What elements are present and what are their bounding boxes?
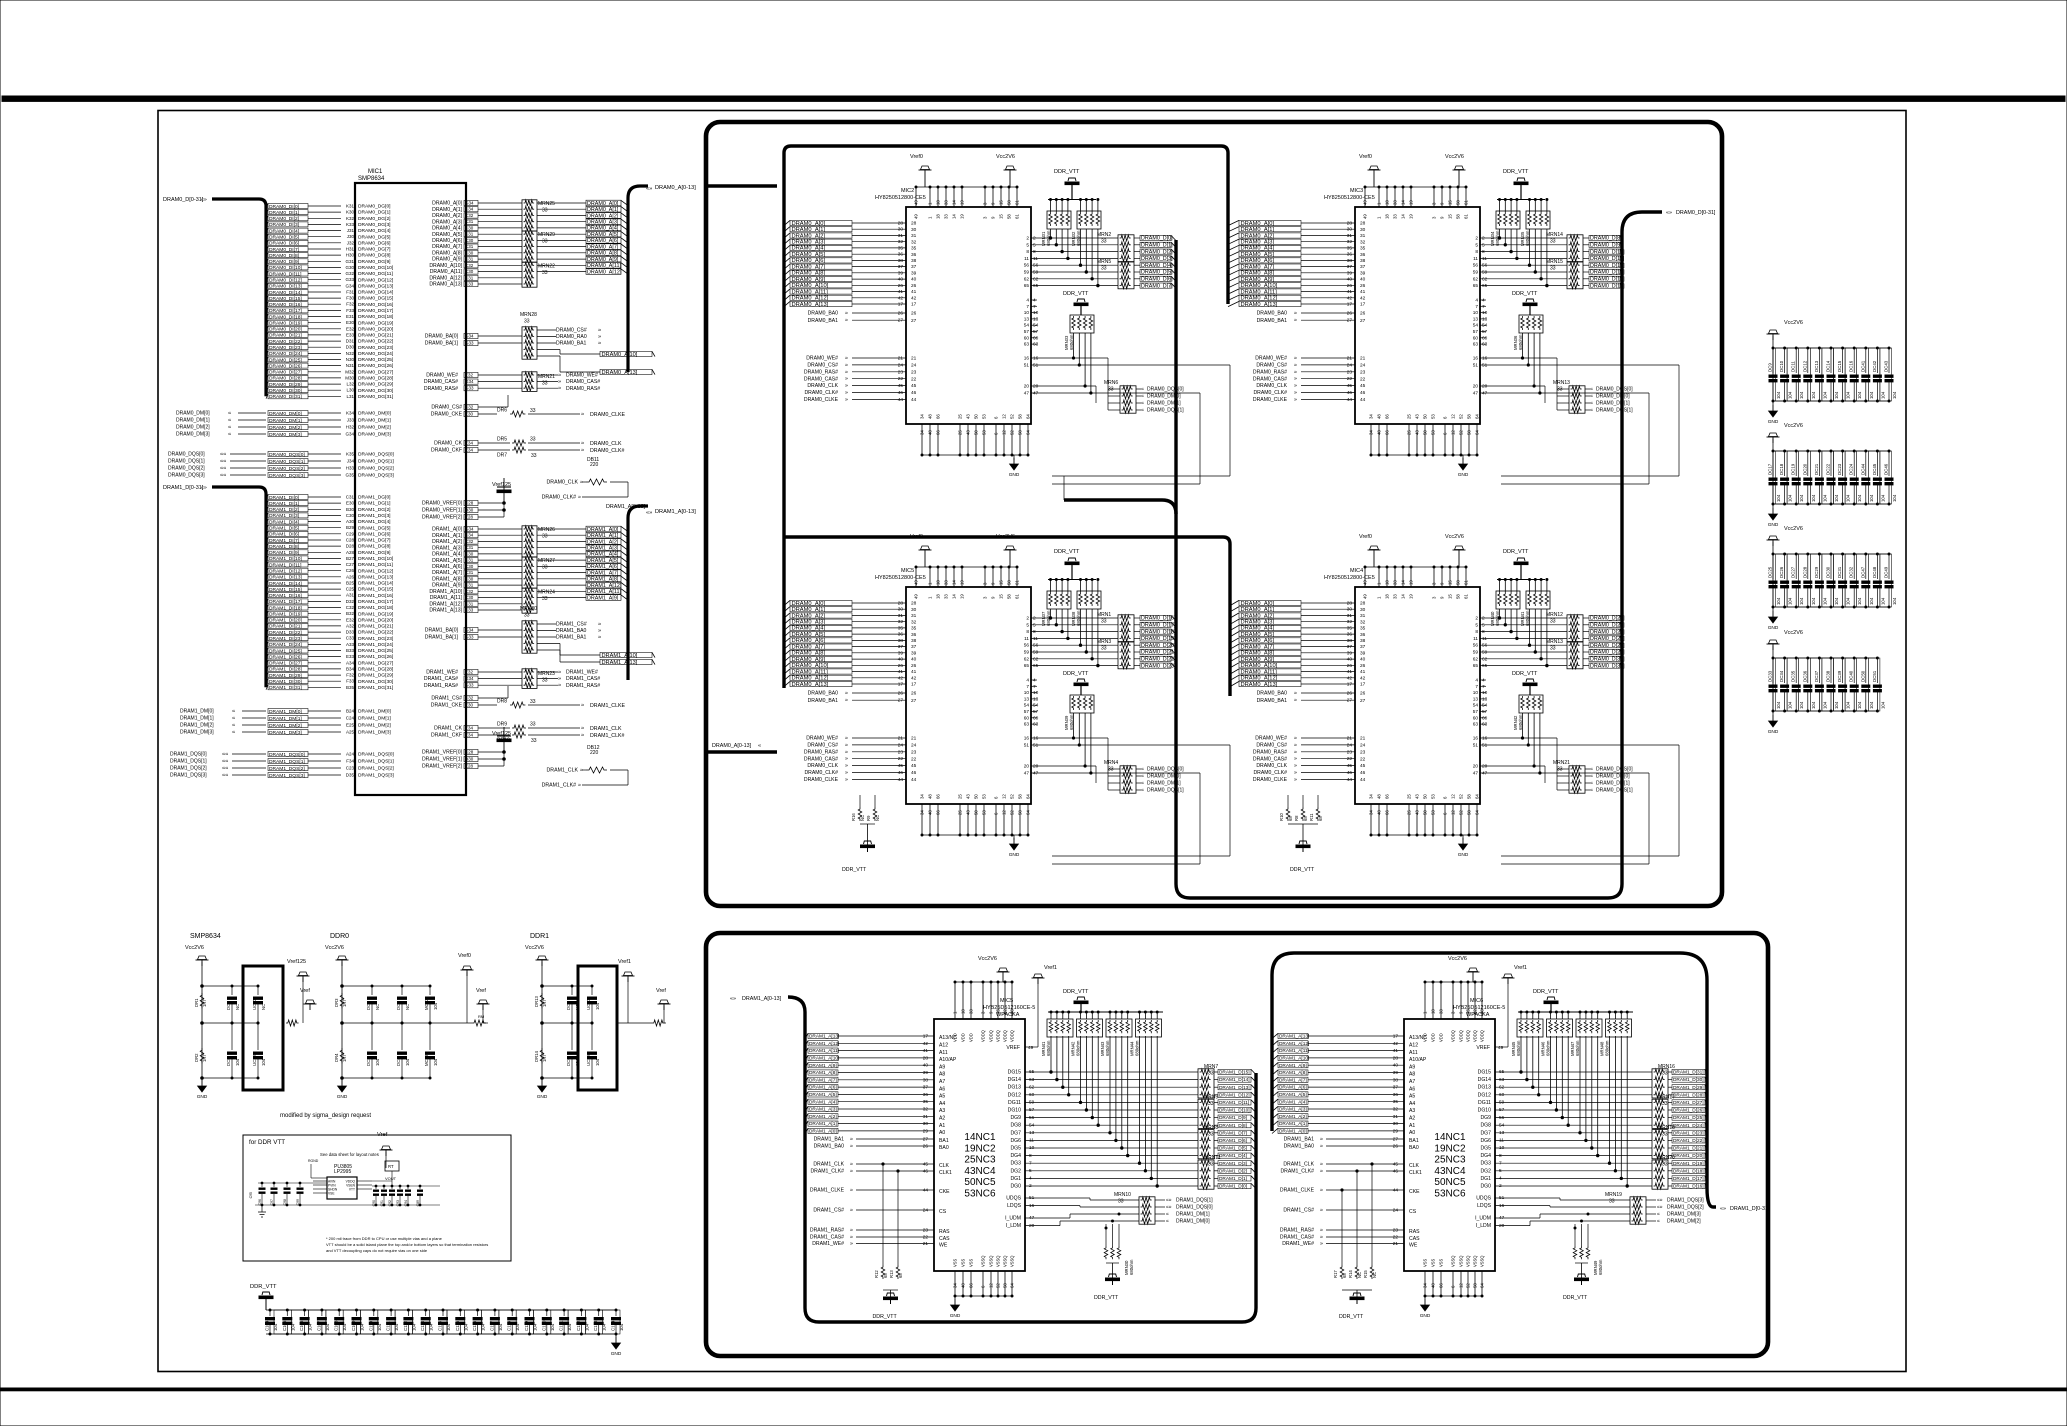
svg-text:DRAM0_D[30]: DRAM0_D[30] bbox=[1590, 657, 1625, 663]
svg-text:»: » bbox=[1320, 1241, 1323, 1247]
svg-text:GND: GND bbox=[1768, 522, 1779, 528]
svg-text:DRAM0_DM[0]: DRAM0_DM[0] bbox=[269, 411, 302, 417]
svg-text:DRAM1_VREF[1]: DRAM1_VREF[1] bbox=[422, 757, 463, 763]
svg-text:30: 30 bbox=[1393, 1121, 1399, 1127]
svg-text:25: 25 bbox=[958, 810, 963, 815]
svg-text:E30: E30 bbox=[346, 501, 355, 506]
svg-text:»: » bbox=[581, 703, 584, 709]
svg-text:17: 17 bbox=[923, 1034, 929, 1040]
svg-text:DRAM0_A[5]: DRAM0_A[5] bbox=[1241, 252, 1275, 258]
svg-text:for DDR VTT: for DDR VTT bbox=[249, 1139, 285, 1146]
svg-text:DRAM1_CLKE: DRAM1_CLKE bbox=[590, 703, 626, 709]
svg-text:C120: C120 bbox=[541, 1320, 546, 1331]
svg-text:DRAM0_DQS[0]: DRAM0_DQS[0] bbox=[358, 452, 394, 458]
svg-text:Vcc2V6: Vcc2V6 bbox=[1784, 526, 1803, 532]
svg-text:DRAM0_DM[1]: DRAM0_DM[1] bbox=[358, 418, 391, 424]
svg-text:CKE: CKE bbox=[1409, 1189, 1420, 1195]
svg-text:»: » bbox=[1320, 1235, 1323, 1241]
svg-text:47: 47 bbox=[1024, 391, 1030, 397]
svg-text:DRAM0_DQS[0]: DRAM0_DQS[0] bbox=[1596, 387, 1633, 393]
svg-text:43: 43 bbox=[966, 794, 971, 799]
svg-text:DRAM1_D[31]: DRAM1_D[31] bbox=[1673, 1070, 1704, 1076]
svg-text:42: 42 bbox=[898, 675, 904, 681]
svg-text:K35: K35 bbox=[346, 452, 355, 457]
svg-text:17: 17 bbox=[911, 682, 917, 688]
svg-text:37: 37 bbox=[911, 644, 917, 650]
svg-text:DRAM1_BA0: DRAM1_BA0 bbox=[814, 1144, 845, 1150]
svg-text:DRAM0_D[0-31]: DRAM0_D[0-31] bbox=[163, 197, 204, 203]
svg-text:34: 34 bbox=[920, 794, 925, 799]
svg-text:16: 16 bbox=[1033, 356, 1039, 362]
svg-text:41: 41 bbox=[1347, 669, 1353, 675]
svg-text:NC: NC bbox=[875, 815, 880, 821]
svg-text:57: 57 bbox=[1033, 329, 1039, 335]
svg-text:DRAM1_DG[23]: DRAM1_DG[23] bbox=[358, 636, 393, 642]
svg-text:10: 10 bbox=[1473, 690, 1479, 696]
svg-text:DRAM0_DQS[3]: DRAM0_DQS[3] bbox=[358, 473, 394, 479]
svg-text:DRAM1_D[11]: DRAM1_D[11] bbox=[1219, 1100, 1249, 1106]
svg-text:»: » bbox=[1320, 1162, 1323, 1168]
svg-text:DDR0: DDR0 bbox=[330, 933, 349, 940]
svg-text:DRAM0_DM[0]: DRAM0_DM[0] bbox=[1147, 774, 1181, 780]
svg-text:104: 104 bbox=[1869, 701, 1874, 709]
svg-text:«: « bbox=[1590, 781, 1593, 787]
svg-text:57: 57 bbox=[1473, 329, 1479, 335]
svg-text:33: 33 bbox=[1108, 767, 1114, 773]
svg-text:104: 104 bbox=[235, 1058, 240, 1066]
svg-text:VTT: VTT bbox=[349, 1187, 355, 1191]
svg-text:A3: A3 bbox=[1409, 1108, 1415, 1114]
svg-text:DRAM0_CLK: DRAM0_CLK bbox=[1256, 763, 1287, 769]
svg-text:DC18: DC18 bbox=[1779, 463, 1784, 475]
svg-text:49: 49 bbox=[914, 594, 919, 599]
svg-text:19: 19 bbox=[1409, 594, 1414, 599]
svg-text:»: » bbox=[558, 386, 561, 392]
svg-text:DRAM0_BA[1]: DRAM0_BA[1] bbox=[425, 341, 459, 347]
svg-text:680ohm: 680ohm bbox=[1046, 1040, 1051, 1056]
svg-text:»: » bbox=[845, 356, 848, 362]
svg-text:GND: GND bbox=[337, 1094, 348, 1100]
svg-text:DRAM1_DG[18]: DRAM1_DG[18] bbox=[358, 605, 393, 611]
svg-text:35: 35 bbox=[898, 625, 904, 631]
svg-text:19NC2: 19NC2 bbox=[1434, 1143, 1466, 1154]
svg-text:DR9: DR9 bbox=[497, 722, 507, 728]
svg-text:4: 4 bbox=[1482, 298, 1485, 304]
svg-text:DC14: DC14 bbox=[1826, 360, 1831, 372]
svg-text:«: « bbox=[1166, 1212, 1169, 1218]
svg-text:»: » bbox=[845, 777, 848, 783]
svg-text:DRAM1_DI[24]: DRAM1_DI[24] bbox=[269, 642, 302, 648]
svg-text:DRAM1_D[19]: DRAM1_D[19] bbox=[1673, 1161, 1704, 1167]
svg-text:104: 104 bbox=[595, 1058, 600, 1066]
svg-text:MRN27: MRN27 bbox=[538, 558, 555, 564]
svg-text:33: 33 bbox=[944, 594, 949, 599]
svg-text:DRAM0_A[8]: DRAM0_A[8] bbox=[1241, 651, 1275, 657]
svg-text:41: 41 bbox=[898, 289, 904, 295]
svg-text:65: 65 bbox=[1024, 283, 1030, 289]
svg-text:DRAM1_D[4]: DRAM1_D[4] bbox=[1219, 1153, 1247, 1159]
svg-text:DRAM0_A[2]: DRAM0_A[2] bbox=[792, 233, 826, 239]
svg-text:42: 42 bbox=[911, 675, 917, 681]
svg-text:N32: N32 bbox=[346, 351, 355, 356]
svg-text:8: 8 bbox=[1475, 249, 1478, 255]
svg-text:DRAM1_DG[26]: DRAM1_DG[26] bbox=[358, 654, 393, 660]
svg-text:A12: A12 bbox=[1409, 1043, 1418, 1049]
svg-text:DRAM1_A[5]: DRAM1_A[5] bbox=[432, 558, 462, 564]
svg-text:DRAM0_D[9]: DRAM0_D[9] bbox=[1590, 243, 1622, 249]
svg-text:«: « bbox=[1141, 401, 1144, 407]
svg-text:C111: C111 bbox=[386, 1321, 391, 1331]
svg-text:DRAM1_DG[21]: DRAM1_DG[21] bbox=[358, 624, 393, 630]
svg-text:DRAM1_D[1]: DRAM1_D[1] bbox=[1219, 1176, 1247, 1182]
svg-text:23: 23 bbox=[1393, 1228, 1399, 1234]
svg-text:RAS: RAS bbox=[1409, 1229, 1420, 1235]
svg-text:«»: «» bbox=[646, 510, 652, 516]
svg-text:A10/AP: A10/AP bbox=[1409, 1057, 1427, 1063]
svg-text:33: 33 bbox=[542, 534, 548, 540]
svg-text:A33: A33 bbox=[346, 642, 355, 647]
svg-text:DRAM1_A[6]: DRAM1_A[6] bbox=[587, 564, 619, 570]
svg-text:VDDQ: VDDQ bbox=[1010, 1030, 1015, 1042]
svg-text:C106: C106 bbox=[299, 1320, 304, 1331]
svg-text:61: 61 bbox=[1464, 594, 1469, 599]
svg-text:40: 40 bbox=[911, 277, 917, 283]
svg-text:22: 22 bbox=[923, 1235, 929, 1241]
svg-text:C24: C24 bbox=[346, 716, 355, 721]
svg-text:52: 52 bbox=[1003, 1009, 1008, 1014]
svg-text:E32: E32 bbox=[346, 326, 355, 331]
svg-text:D31: D31 bbox=[346, 339, 355, 344]
svg-text:24: 24 bbox=[1347, 742, 1353, 748]
svg-text:DC11: DC11 bbox=[1791, 361, 1796, 372]
svg-text:DRAM1_CLK#: DRAM1_CLK# bbox=[542, 783, 577, 789]
svg-text:104: 104 bbox=[1846, 597, 1851, 605]
svg-text:DRAM1_DQS[0]: DRAM1_DQS[0] bbox=[170, 752, 207, 758]
svg-text:33: 33 bbox=[1550, 266, 1556, 272]
svg-text:LDQS: LDQS bbox=[1477, 1203, 1492, 1209]
svg-text:DRAM1_A[4]: DRAM1_A[4] bbox=[587, 552, 619, 558]
svg-text:21: 21 bbox=[898, 356, 904, 362]
svg-text:33: 33 bbox=[542, 270, 548, 276]
svg-text:53: 53 bbox=[982, 430, 987, 435]
svg-text:DRAM0_BA1: DRAM0_BA1 bbox=[556, 341, 587, 347]
svg-text:58: 58 bbox=[1480, 1009, 1485, 1014]
svg-text:DRAM0_BA[0]: DRAM0_BA[0] bbox=[425, 334, 459, 340]
svg-text:DRAM1_DQS[3]: DRAM1_DQS[3] bbox=[1667, 1198, 1704, 1204]
svg-text:43NC4: 43NC4 bbox=[964, 1166, 996, 1177]
svg-text:42: 42 bbox=[1347, 295, 1353, 301]
svg-text:DRAM0_A[10]: DRAM0_A[10] bbox=[602, 352, 638, 358]
svg-text:DRAM1_A[7]: DRAM1_A[7] bbox=[1279, 1077, 1307, 1083]
svg-text:104: 104 bbox=[1788, 494, 1793, 502]
svg-text:104: 104 bbox=[1857, 391, 1862, 399]
svg-text:A0: A0 bbox=[939, 1130, 945, 1136]
svg-text:««: «« bbox=[220, 466, 226, 472]
svg-text:51: 51 bbox=[1482, 743, 1488, 749]
svg-text:F33: F33 bbox=[346, 308, 354, 313]
svg-text:«: « bbox=[1141, 781, 1144, 787]
svg-text:5: 5 bbox=[1033, 622, 1036, 628]
svg-text:F30: F30 bbox=[346, 296, 354, 301]
svg-text:104: 104 bbox=[1834, 597, 1839, 605]
svg-text:»: » bbox=[581, 726, 584, 732]
svg-text:104: 104 bbox=[1834, 701, 1839, 709]
svg-text:DC21: DC21 bbox=[1814, 463, 1819, 475]
svg-text:37: 37 bbox=[923, 1085, 929, 1091]
svg-text:DRAM1_A[8]: DRAM1_A[8] bbox=[1279, 1070, 1307, 1076]
svg-text:30: 30 bbox=[911, 607, 917, 613]
svg-text:60: 60 bbox=[1482, 335, 1488, 341]
svg-text:«: « bbox=[1590, 408, 1593, 414]
svg-text:50NC5: 50NC5 bbox=[1434, 1177, 1466, 1188]
svg-text:DC23: DC23 bbox=[1837, 463, 1842, 475]
svg-text:DRAM0_WE#: DRAM0_WE# bbox=[426, 373, 458, 379]
svg-text:»: » bbox=[1320, 1228, 1323, 1234]
svg-text:DRAM1_A[8]: DRAM1_A[8] bbox=[587, 577, 619, 583]
svg-text:14: 14 bbox=[952, 214, 957, 219]
svg-text:22: 22 bbox=[1393, 1235, 1399, 1241]
svg-text:F32: F32 bbox=[346, 302, 354, 307]
svg-text:58: 58 bbox=[1467, 810, 1472, 815]
svg-text:26: 26 bbox=[923, 1144, 929, 1150]
svg-text:E34: E34 bbox=[465, 733, 474, 738]
svg-text:VSS: VSS bbox=[1423, 1259, 1428, 1267]
svg-text:DRAM1_DQS[2]: DRAM1_DQS[2] bbox=[269, 766, 305, 772]
svg-text:15: 15 bbox=[1448, 594, 1453, 599]
svg-text:35: 35 bbox=[1360, 246, 1366, 252]
svg-text:24: 24 bbox=[1360, 363, 1366, 369]
svg-text:DRAM1_D[18]: DRAM1_D[18] bbox=[1673, 1168, 1704, 1174]
svg-text:49: 49 bbox=[914, 200, 919, 205]
svg-text:36: 36 bbox=[923, 1092, 929, 1098]
svg-text:13: 13 bbox=[1482, 696, 1488, 702]
svg-text:DRAM0_D[2]: DRAM0_D[2] bbox=[1141, 249, 1173, 255]
svg-text:48: 48 bbox=[928, 414, 933, 419]
svg-text:Vcc2V6: Vcc2V6 bbox=[978, 956, 997, 962]
svg-text:DG6: DG6 bbox=[1010, 1138, 1021, 1144]
svg-text:DRAM0_RAS#: DRAM0_RAS# bbox=[804, 749, 838, 755]
svg-text:13: 13 bbox=[1473, 316, 1479, 322]
svg-text:DRAM1_DI[2]: DRAM1_DI[2] bbox=[269, 507, 299, 513]
svg-text:68: 68 bbox=[1318, 816, 1323, 821]
svg-text:43: 43 bbox=[966, 414, 971, 419]
svg-text:104: 104 bbox=[1857, 597, 1862, 605]
svg-text:DRAM1_A[0]: DRAM1_A[0] bbox=[432, 527, 462, 533]
svg-text:48: 48 bbox=[961, 1283, 966, 1288]
svg-text:DRAM1_DI[6]: DRAM1_DI[6] bbox=[269, 532, 299, 538]
svg-text:DRAM1_DG[30]: DRAM1_DG[30] bbox=[358, 679, 393, 685]
svg-text:DRAM0_DI[31]: DRAM0_DI[31] bbox=[269, 394, 302, 400]
svg-text:DDR_VTT: DDR_VTT bbox=[250, 1284, 277, 1290]
svg-text:5: 5 bbox=[1475, 242, 1478, 248]
svg-text:VSS: VSS bbox=[961, 1259, 966, 1267]
svg-text:52: 52 bbox=[1459, 430, 1464, 435]
svg-text:38: 38 bbox=[911, 638, 917, 644]
svg-text:C123: C123 bbox=[593, 1320, 598, 1331]
svg-text:DRAM1_D[24]: DRAM1_D[24] bbox=[1673, 1123, 1704, 1129]
svg-text:F34: F34 bbox=[346, 759, 354, 764]
svg-text:A30: A30 bbox=[346, 519, 355, 524]
svg-text:57: 57 bbox=[1482, 329, 1488, 335]
svg-text:DRAM1_A[2]: DRAM1_A[2] bbox=[587, 539, 619, 545]
svg-text:MRN25: MRN25 bbox=[538, 201, 555, 207]
svg-text:DRAM0_A[1]: DRAM0_A[1] bbox=[1241, 607, 1275, 613]
svg-text:G33: G33 bbox=[345, 277, 354, 282]
svg-text:MC33: MC33 bbox=[424, 1054, 429, 1066]
svg-text:DRAM0_D[6]: DRAM0_D[6] bbox=[1141, 277, 1173, 283]
svg-text:104: 104 bbox=[1834, 494, 1839, 502]
svg-text:DRAM0_A[2]: DRAM0_A[2] bbox=[432, 213, 462, 219]
svg-text:D28: D28 bbox=[346, 544, 355, 549]
svg-text:46: 46 bbox=[898, 770, 904, 776]
svg-text:14NC1: 14NC1 bbox=[964, 1132, 996, 1143]
svg-text:18: 18 bbox=[936, 594, 941, 599]
svg-text:DRAM1_DQS[3]: DRAM1_DQS[3] bbox=[170, 773, 207, 779]
svg-text:39: 39 bbox=[911, 270, 917, 276]
svg-text:GND: GND bbox=[1420, 1313, 1431, 1319]
svg-text:50: 50 bbox=[974, 430, 979, 435]
svg-text:DRAM0_D[26]: DRAM0_D[26] bbox=[1590, 629, 1625, 635]
svg-text:DRAM1_CLKE: DRAM1_CLKE bbox=[810, 1188, 845, 1194]
svg-text:A13/NC: A13/NC bbox=[1409, 1035, 1427, 1041]
svg-text:20: 20 bbox=[1473, 384, 1479, 390]
svg-text:1R7: 1R7 bbox=[542, 1054, 547, 1062]
svg-text:C31: C31 bbox=[465, 570, 474, 575]
svg-text:A24: A24 bbox=[346, 752, 355, 757]
svg-text:5: 5 bbox=[1026, 622, 1029, 628]
svg-text:VSSQ: VSSQ bbox=[1466, 1256, 1471, 1267]
svg-text:DC38: DC38 bbox=[1826, 670, 1831, 682]
svg-text:DRAM0_A[12]: DRAM0_A[12] bbox=[792, 296, 829, 302]
svg-text:16: 16 bbox=[1033, 736, 1039, 742]
svg-text:DRAM1_D[6]: DRAM1_D[6] bbox=[1219, 1138, 1247, 1144]
svg-text:DC10: DC10 bbox=[1779, 360, 1784, 372]
svg-text:28: 28 bbox=[1360, 221, 1366, 227]
svg-text:50: 50 bbox=[974, 810, 979, 815]
svg-text:DRAM0_CLKE: DRAM0_CLKE bbox=[1253, 397, 1288, 403]
svg-text:MRN12: MRN12 bbox=[1546, 612, 1563, 618]
svg-text:10: 10 bbox=[1473, 310, 1479, 316]
svg-text:C89: C89 bbox=[416, 1200, 420, 1206]
svg-text:»: » bbox=[850, 1162, 853, 1168]
svg-text:27: 27 bbox=[911, 318, 917, 324]
svg-text:39: 39 bbox=[911, 650, 917, 656]
svg-text:G34: G34 bbox=[465, 628, 474, 633]
svg-text:G31: G31 bbox=[345, 259, 354, 264]
svg-text:DRAM1_A[11]: DRAM1_A[11] bbox=[809, 1048, 839, 1054]
svg-text:42: 42 bbox=[911, 295, 917, 301]
svg-text:B24: B24 bbox=[346, 709, 355, 714]
svg-text:DG13: DG13 bbox=[1478, 1085, 1492, 1091]
svg-text:26: 26 bbox=[911, 311, 917, 317]
svg-text:MRN9: MRN9 bbox=[1204, 1094, 1218, 1100]
svg-text:DRAM0_A[9]: DRAM0_A[9] bbox=[587, 257, 619, 263]
svg-text:E30: E30 bbox=[465, 703, 474, 708]
svg-text:14: 14 bbox=[1401, 200, 1406, 205]
svg-text:61: 61 bbox=[1464, 214, 1469, 219]
svg-text:»: » bbox=[1294, 318, 1297, 324]
svg-text:»: » bbox=[1294, 691, 1297, 697]
svg-text:»: » bbox=[1294, 376, 1297, 382]
svg-text:DRAM1_A[5]: DRAM1_A[5] bbox=[587, 558, 619, 564]
svg-text:39: 39 bbox=[1360, 270, 1366, 276]
svg-text:27: 27 bbox=[1360, 698, 1366, 704]
svg-text:DRAM0_DG[3]: DRAM0_DG[3] bbox=[358, 222, 391, 228]
svg-text:UC204: UC204 bbox=[586, 1052, 591, 1066]
svg-text:104: 104 bbox=[1880, 597, 1885, 605]
svg-text:45: 45 bbox=[1360, 383, 1366, 389]
svg-text:DRAM0_A[6]: DRAM0_A[6] bbox=[587, 238, 619, 244]
svg-text:DRAM0_D[22]: DRAM0_D[22] bbox=[1141, 657, 1176, 663]
svg-text:GND: GND bbox=[1009, 852, 1020, 858]
svg-text:DRAM0_CAS#: DRAM0_CAS# bbox=[1253, 756, 1287, 762]
svg-text:DRAM0_CLKE: DRAM0_CLKE bbox=[590, 412, 626, 418]
svg-text:«: « bbox=[1166, 1219, 1169, 1225]
svg-text:DRAM1_D[3]: DRAM1_D[3] bbox=[1219, 1161, 1247, 1167]
svg-text:DRAM1_DG[20]: DRAM1_DG[20] bbox=[358, 617, 393, 623]
svg-text:«: « bbox=[1590, 788, 1593, 794]
svg-text:VDD: VDD bbox=[969, 1033, 974, 1042]
svg-text:DRAM0_DG[13]: DRAM0_DG[13] bbox=[358, 283, 393, 289]
svg-text:DR1: DR1 bbox=[194, 998, 199, 1007]
svg-text:34: 34 bbox=[920, 430, 925, 435]
svg-text:DRAM0_DM[1]: DRAM0_DM[1] bbox=[1147, 401, 1181, 407]
svg-text:»: » bbox=[850, 1228, 853, 1234]
svg-text:DG9: DG9 bbox=[1010, 1115, 1021, 1121]
svg-text:40: 40 bbox=[923, 1063, 929, 1069]
svg-text:C26: C26 bbox=[346, 568, 355, 573]
svg-text:16: 16 bbox=[1024, 736, 1030, 742]
svg-text:58: 58 bbox=[1456, 200, 1461, 205]
svg-text:CAS: CAS bbox=[939, 1236, 950, 1242]
svg-text:MRN14: MRN14 bbox=[1546, 232, 1563, 238]
svg-text:DRAM0_CAS#: DRAM0_CAS# bbox=[804, 756, 838, 762]
svg-text:D32: D32 bbox=[346, 599, 355, 604]
svg-text:»: » bbox=[1294, 390, 1297, 396]
svg-text:MRN7: MRN7 bbox=[1204, 1064, 1218, 1070]
svg-text:DRAM1_DG[12]: DRAM1_DG[12] bbox=[358, 568, 393, 574]
svg-text:DRAM1_CLK#: DRAM1_CLK# bbox=[810, 1169, 844, 1175]
svg-text:DRAM1_DI[12]: DRAM1_DI[12] bbox=[269, 569, 302, 575]
svg-text:33: 33 bbox=[1208, 1071, 1214, 1077]
svg-text:DRAM0_DM[2]: DRAM0_DM[2] bbox=[176, 425, 210, 431]
svg-text:DRAM0_A[10]: DRAM0_A[10] bbox=[1241, 283, 1278, 289]
svg-text:20: 20 bbox=[1473, 764, 1479, 770]
svg-text:DRAM0_CLK#: DRAM0_CLK# bbox=[1253, 770, 1287, 776]
svg-text:DRAM1_DQS[2]: DRAM1_DQS[2] bbox=[1667, 1205, 1704, 1211]
svg-text:41: 41 bbox=[911, 669, 917, 675]
svg-text:DRAM1_D[28]: DRAM1_D[28] bbox=[1673, 1092, 1704, 1098]
svg-text:35: 35 bbox=[1347, 245, 1353, 251]
svg-text:DRAM1_BA1: DRAM1_BA1 bbox=[814, 1137, 845, 1143]
svg-text:A1: A1 bbox=[939, 1123, 945, 1129]
svg-text:»: » bbox=[581, 441, 584, 447]
svg-text:C116: C116 bbox=[472, 1320, 477, 1331]
svg-text:L31: L31 bbox=[346, 394, 354, 399]
svg-text:104: 104 bbox=[1857, 494, 1862, 502]
svg-text:22: 22 bbox=[1347, 376, 1353, 382]
svg-text:20: 20 bbox=[1033, 764, 1039, 770]
svg-text:DRAM1_DM[1]: DRAM1_DM[1] bbox=[180, 716, 214, 722]
svg-text:62: 62 bbox=[1482, 276, 1488, 282]
svg-text:DRAM1_DQS[3]: DRAM1_DQS[3] bbox=[269, 773, 305, 779]
svg-text:»: » bbox=[850, 1144, 853, 1150]
svg-text:DRAM0_DM[0]: DRAM0_DM[0] bbox=[1147, 394, 1181, 400]
svg-text:DRAM0_DI[4]: DRAM0_DI[4] bbox=[269, 228, 299, 234]
svg-text:DRAM0_A[8]: DRAM0_A[8] bbox=[1241, 271, 1275, 277]
svg-text:DRAM0_DI[14]: DRAM0_DI[14] bbox=[269, 290, 302, 296]
svg-text:DC33: DC33 bbox=[1768, 670, 1773, 682]
